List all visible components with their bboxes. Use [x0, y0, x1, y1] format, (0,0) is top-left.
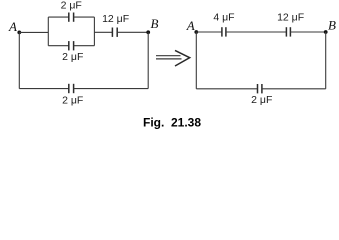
svg-text:A: A	[186, 18, 195, 33]
svg-text:4 μF: 4 μF	[213, 11, 234, 23]
implies arrow	[156, 50, 190, 66]
svg-text:2 μF: 2 μF	[61, 0, 82, 11]
wire bottom left segment	[19, 88, 69, 90]
wire C3 to node B	[117, 31, 148, 33]
wire A to C5	[196, 31, 222, 33]
wire top branch right	[74, 16, 95, 18]
svg-text:2 μF: 2 μF	[62, 51, 83, 63]
capacitor C6 12uF	[286, 27, 290, 36]
wire box left edge	[47, 17, 49, 46]
wire A down (right)	[195, 32, 197, 89]
wire bottom branch left	[48, 45, 69, 47]
node B (right circuit)	[324, 30, 328, 34]
svg-text:A: A	[8, 19, 17, 34]
wire top branch left	[48, 16, 69, 18]
wire box right edge	[93, 17, 95, 46]
wire B down (right)	[325, 32, 327, 89]
node A (left circuit)	[17, 31, 21, 35]
capacitor C1 2uF (top branch)	[69, 13, 74, 22]
svg-text:2 μF: 2 μF	[62, 94, 83, 106]
wire bottom right segment	[74, 88, 149, 90]
svg-text:B: B	[328, 18, 336, 33]
node B (left circuit)	[146, 30, 150, 34]
wire B down	[147, 32, 149, 88]
capacitor C7 2uF (bottom, right circuit)	[258, 84, 262, 93]
svg-text:Fig. 21.38: Fig. 21.38	[143, 115, 201, 129]
capacitor C5 4uF	[222, 27, 226, 36]
svg-text:2 μF: 2 μF	[251, 94, 272, 106]
svg-text:12 μF: 12 μF	[277, 11, 304, 23]
svg-text:B: B	[151, 16, 159, 31]
node A (right circuit)	[194, 30, 198, 34]
wire bottom left segment (right circuit)	[196, 88, 257, 90]
wire A down	[18, 32, 20, 88]
wire C6 to node B	[290, 31, 325, 33]
wire C5 to C6	[226, 31, 287, 33]
svg-text:12 μF: 12 μF	[102, 13, 129, 25]
capacitor C3 12uF (series, left circuit)	[112, 28, 117, 37]
wire bottom right segment (right circuit)	[262, 88, 326, 90]
wire box to C3	[94, 31, 112, 33]
wire bottom branch right	[74, 45, 95, 47]
wire A to parallel box	[19, 31, 48, 33]
capacitor C4 2uF (bottom, left circuit)	[69, 84, 74, 93]
capacitor C2 2uF (bottom branch of box)	[69, 41, 74, 50]
